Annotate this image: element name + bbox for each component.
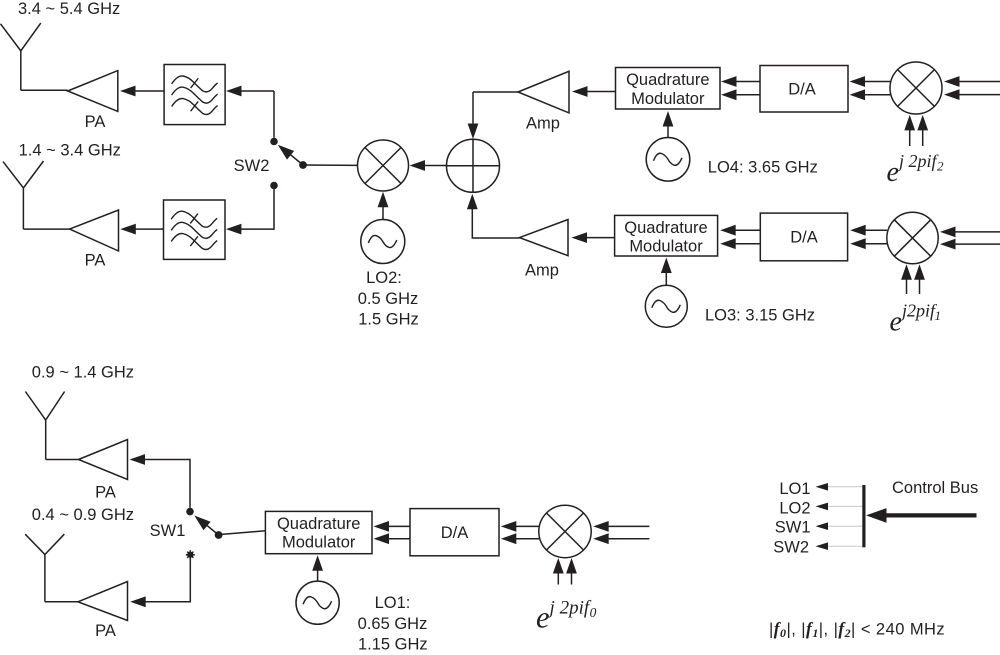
switch SW1 wiper arrow [207,525,219,535]
switch SW2 wiper arrow [290,154,303,165]
switch SW1 pole [215,531,223,539]
arrow carrier into mixer M2 left stem [909,130,911,147]
arrow D/A1 to QM1 Q line [735,94,760,96]
D/A converter U1 [760,66,848,113]
svg-text:PA: PA [95,622,116,640]
arrow input Q to mixer M0 [607,538,649,540]
oscillator LO1 [296,581,339,624]
arrow filter F2 to PA2 [134,228,164,230]
oscillator LO3 [645,285,687,327]
summer S1 [447,139,500,192]
arrow carrier into mixer M2 right stem [922,130,924,147]
arrow input Q to mixer M3 [954,243,1000,245]
arrow D/A3 to QM3 I line [388,525,411,527]
arrow mixer M2 to D/A1 I line [864,81,891,83]
control bus bar [862,485,865,547]
wire Amp1 apex to bend [473,91,518,93]
svg-text:Control Bus: Control Bus [892,479,978,497]
arrow SW1 to PA3 [144,460,191,508]
amplifier PA1 [68,71,118,112]
arrow D/A1 to QM1 I line [735,81,760,83]
svg-text:PA: PA [85,113,106,131]
svg-text:1.4 ~ 3.4 GHz: 1.4 ~ 3.4 GHz [19,141,121,159]
quadrature modulator QM2 [615,215,718,256]
oscillator LO4 [646,138,690,182]
switch SW1 bottom contact [186,550,195,559]
svg-text:Quadrature: Quadrature [624,219,707,237]
mixer M2 [890,62,942,114]
control line to LO2 [828,505,862,507]
svg-text:Modulator: Modulator [629,238,703,256]
svg-text:PA: PA [95,484,116,502]
D/A converter U3 [410,509,499,556]
arrow mixer M2 to D/A1 Q line [864,94,891,96]
arrow carrier into mixer M3 left stem [906,279,908,294]
wire antenna ANT2 to PA2 [23,228,69,230]
mixer M1 [358,140,409,191]
svg-text:LO4: 3.65 GHz: LO4: 3.65 GHz [708,159,818,177]
arrow SW1 bottom contact to PA4 [144,558,190,602]
wire antenna ANT4 to PA4 [45,601,78,603]
svg-text:0.4 ~ 0.9 GHz: 0.4 ~ 0.9 GHz [32,506,134,524]
arrow filter F1 to PA1 [133,90,164,92]
D/A converter U2 [760,213,847,261]
arrow D/A2 to QM2 I line [735,229,761,231]
svg-text:Amp: Amp [526,115,560,133]
control line to LO1 [828,486,862,488]
svg-text:Quadrature: Quadrature [626,71,709,89]
svg-text:D/A: D/A [788,81,816,99]
svg-text:D/A: D/A [790,229,818,247]
svg-text:SW1: SW1 [775,519,811,537]
svg-text:LO3: 3.15 GHz: LO3: 3.15 GHz [705,306,815,324]
oscillator LO2 [361,220,405,264]
arrow D/A2 to QM2 Q line [735,243,761,245]
switch SW2 top contact [270,138,278,146]
svg-text:LO2:: LO2: [366,269,402,287]
svg-text:1.5 GHz: 1.5 GHz [358,311,419,329]
switch SW2 bottom contact [270,182,278,190]
svg-text:0.5 GHz: 0.5 GHz [358,290,419,308]
svg-text:0.65 GHz: 0.65 GHz [358,615,428,633]
amplifier Amp1 [518,71,569,113]
wire riser to SW2 top contact [273,91,275,138]
arrow Amp1 to summer S1 top [472,92,474,125]
quadrature modulator QM3 [265,511,372,553]
arrow mixer M0 to D/A3 I line [515,525,539,527]
arrow LO1 to QM3 [317,569,319,581]
arrow SW2 to filter F1 [239,90,274,92]
arrow mixer M3 to D/A2 I line [865,229,888,231]
wire antenna ANT1 to PA1 [21,89,68,91]
arrow LO4 to QM1 [667,125,669,138]
arrow summer S1 to mixer M1 [423,165,447,167]
arrow carrier into mixer M0 right stem [571,572,573,584]
switch SW2 pole [299,161,307,169]
arrow mixer M0 to D/A3 Q line [515,538,539,540]
svg-text:Quadrature: Quadrature [277,515,360,533]
svg-text:D/A: D/A [441,524,469,542]
amplifier PA2 [70,210,119,251]
switch SW1 top contact [186,508,194,516]
control line to SW1 [828,525,862,527]
svg-text:1.15 GHz: 1.15 GHz [358,636,428,650]
arrow LO2 to mixer M1 [382,206,384,220]
antenna ANT4 [25,534,64,602]
control bus arrow [884,513,977,517]
amplifier Amp2 [520,220,569,256]
arrow LO3 to QM2 [665,271,667,285]
arrow carrier into mixer M0 left stem [557,572,559,584]
svg-text:Modulator: Modulator [631,90,705,108]
antenna ANT2 [3,161,44,229]
arrow D/A3 to QM3 Q line [388,538,411,540]
quadrature modulator QM1 [616,68,721,110]
svg-text:SW1: SW1 [150,522,186,540]
arrow SW2 bottom contact to filter F2 [239,186,274,230]
svg-text:PA: PA [85,252,106,270]
svg-text:SW2: SW2 [773,539,809,557]
mixer M3 [887,212,938,263]
antenna ANT1 [1,23,41,90]
wire SW1 pole to QM3 [219,531,266,535]
svg-text:LO1:: LO1: [375,594,411,612]
wire SW2 pole to mixer M1 [303,164,358,166]
control line to SW2 [828,545,862,547]
antenna ANT3 [25,392,64,460]
arrow Amp2 to summer S1 bottom [472,208,519,239]
svg-text:Modulator: Modulator [282,534,356,552]
svg-text:3.4 ~ 5.4 GHz: 3.4 ~ 5.4 GHz [18,0,120,18]
mixer M0 [539,505,591,557]
svg-text:LO2: LO2 [779,500,810,518]
arrow input I to mixer M0 [607,525,649,527]
svg-text:|f0|, |f1|, |f2| < 240 MHz: |f0|, |f1|, |f2| < 240 MHz [769,618,945,640]
arrow carrier into mixer M3 right stem [919,279,921,294]
svg-text:Amp: Amp [525,262,559,280]
filter F2 [164,200,226,259]
arrow mixer M3 to D/A2 Q line [865,243,888,245]
wire antenna ANT3 to PA3 [46,459,79,461]
amplifier PA4 [78,582,128,621]
svg-text:SW2: SW2 [234,157,270,175]
filter F1 [164,65,225,125]
arrow QM2 to Amp2 [586,237,615,239]
arrow input Q to mixer M2 [958,94,1000,96]
arrow QM1 to Amp1 [586,91,616,93]
arrow input I to mixer M2 [958,81,1000,83]
amplifier PA3 [79,440,128,480]
svg-text:0.9 ~ 1.4 GHz: 0.9 ~ 1.4 GHz [32,363,134,381]
arrow input I to mixer M3 [954,231,1000,233]
svg-text:LO1: LO1 [779,480,810,498]
